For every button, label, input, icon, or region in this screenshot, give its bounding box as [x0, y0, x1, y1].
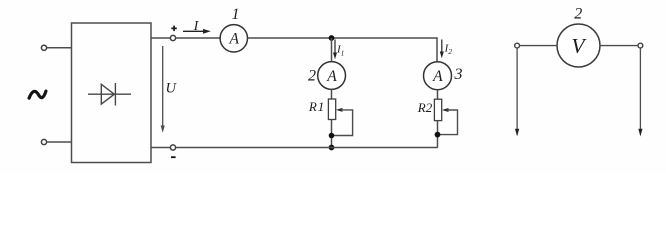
wire + terminal to ammeter 1	[176, 37, 220, 39]
wire ammeter2 to R1	[331, 89, 333, 99]
svg-text:U: U	[166, 81, 178, 97]
ammeter A3	[424, 62, 452, 90]
top wire ammeter1 to branch2 corner	[248, 37, 438, 39]
wire AC top terminal to rectifier box	[47, 47, 72, 49]
R1 wiper tap	[332, 108, 353, 136]
svg-text:3: 3	[454, 66, 463, 83]
current arrow I	[183, 29, 211, 34]
bottom wire - terminal to branch2	[176, 147, 438, 149]
wire box to + terminal	[151, 37, 171, 39]
AC source tilde symbol	[29, 91, 46, 98]
svg-text:2: 2	[308, 67, 316, 84]
wire branch2 corner down to ammeter 3	[436, 37, 438, 62]
arrow I1	[333, 40, 337, 60]
voltmeter V	[557, 24, 600, 67]
AC terminal top	[41, 45, 46, 50]
U arrow	[161, 46, 165, 133]
diode VD inside box	[88, 83, 131, 106]
wire voltmeter to right terminal	[600, 45, 638, 47]
svg-text:R2: R2	[417, 100, 433, 115]
wire R1 bottom to bottom rail	[331, 120, 333, 148]
wire AC bottom terminal to rectifier box	[47, 141, 72, 143]
node dot bottom rail branch1	[329, 145, 335, 151]
wire R2 bottom to bottom rail corner	[437, 121, 439, 148]
svg-text:R1: R1	[308, 99, 325, 114]
arrow I2	[440, 40, 444, 59]
wire ammeter3 to R2	[437, 90, 439, 100]
bottom wire box to - terminal	[151, 147, 171, 149]
resistor R2	[434, 99, 441, 120]
voltmeter left terminal	[515, 43, 520, 48]
R2 wiper tap	[438, 108, 458, 135]
node junction dot branch 1	[329, 35, 335, 41]
svg-text:A: A	[326, 68, 337, 85]
label +	[171, 26, 177, 32]
AC terminal bottom	[41, 139, 46, 144]
resistor R1	[328, 99, 335, 120]
wire branch1 down to ammeter 2	[331, 38, 333, 62]
svg-text:2: 2	[574, 5, 582, 22]
node dot R1 tap junction	[329, 133, 335, 139]
ammeter A1	[220, 25, 247, 52]
ammeter A2	[318, 62, 346, 90]
rectifier box	[72, 23, 152, 163]
wire left terminal to voltmeter	[520, 45, 557, 47]
voltmeter right terminal	[638, 43, 643, 48]
svg-text:1: 1	[232, 6, 240, 23]
node dot R2 tap junction	[435, 132, 441, 138]
+ terminal circle	[170, 35, 175, 40]
right probe lead arrow	[638, 48, 642, 136]
- terminal circle	[170, 145, 175, 150]
svg-text:A: A	[432, 68, 443, 85]
left probe lead arrow	[515, 48, 519, 136]
label -	[171, 156, 176, 158]
svg-text:A: A	[228, 30, 239, 47]
